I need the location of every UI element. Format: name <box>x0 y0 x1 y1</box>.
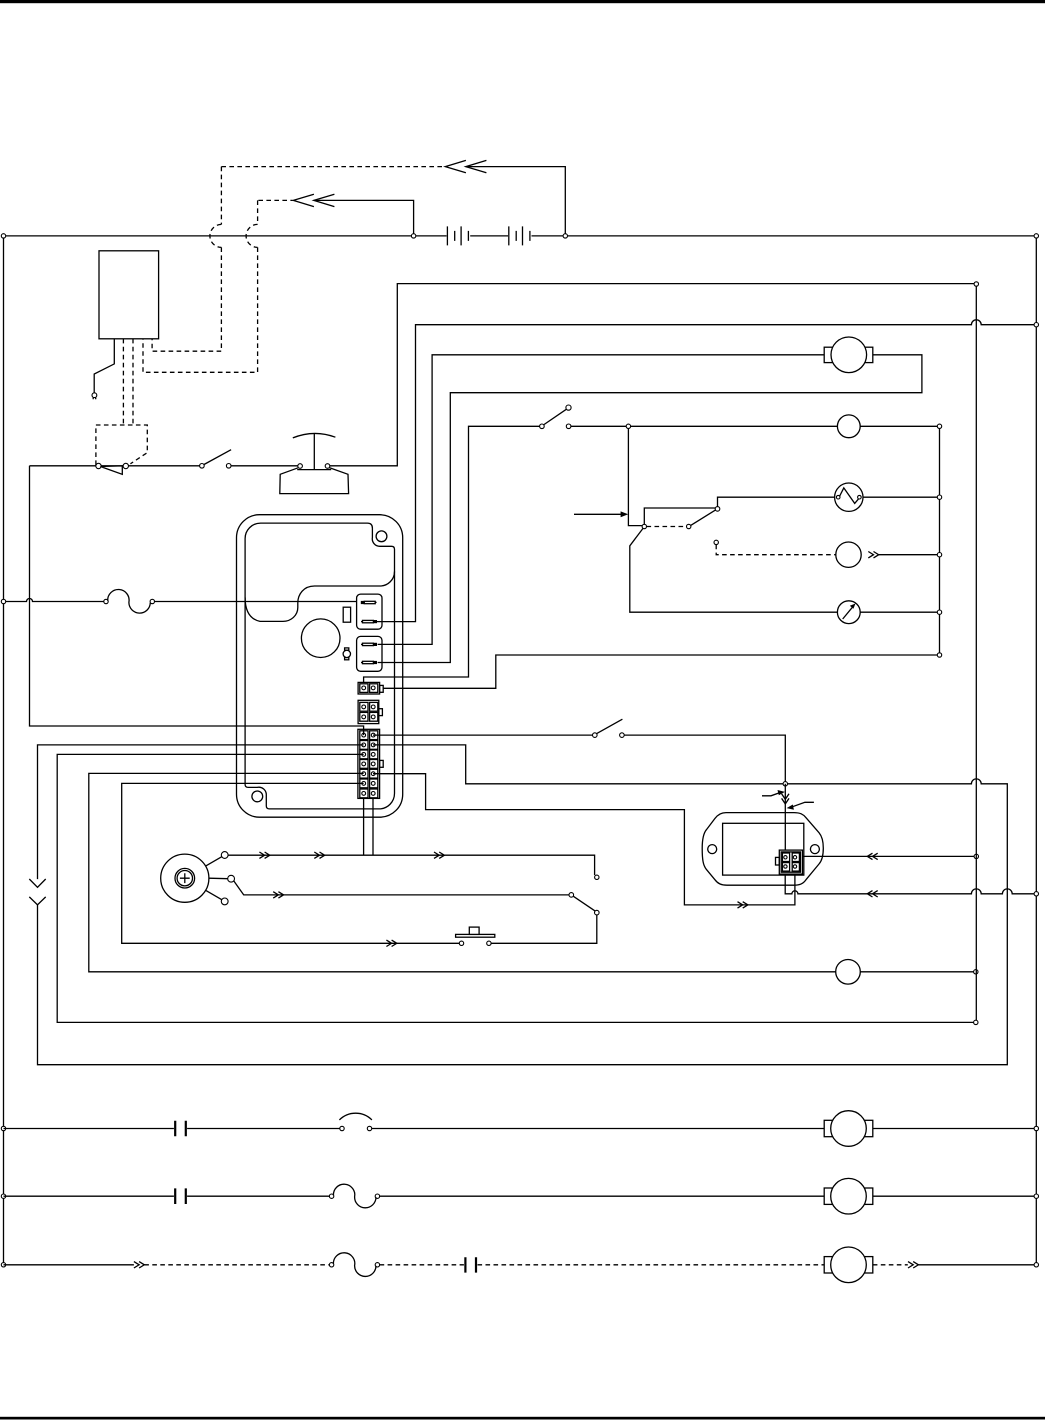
switch blade <box>691 510 716 525</box>
chevrons on B line <box>259 852 269 858</box>
wire: solid part of line 2 <box>314 200 414 233</box>
node reg line2 at border <box>1034 892 1038 896</box>
thermal contact <box>340 1126 344 1130</box>
wire: spark plug lead <box>94 339 114 393</box>
spark plug terminal <box>92 393 97 398</box>
bottom page rule <box>0 1417 1045 1420</box>
chevrons on option line left <box>134 1262 144 1268</box>
node left bus y1196 <box>1 1194 5 1198</box>
key switch terminals <box>221 852 228 859</box>
wire: clutch circuit <box>4 1128 1035 1130</box>
regulator inner rect <box>723 823 804 875</box>
wire: row2 to break arrow <box>38 745 364 879</box>
chevrons on option line right <box>908 1262 918 1268</box>
wire: left bus <box>3 236 5 1265</box>
chevron arrows on line 1 <box>445 160 486 172</box>
wire: row7 pins down to B line <box>364 799 373 856</box>
wire: 2pin to ignition switch line <box>364 426 540 687</box>
mounting hole bottom left <box>252 791 263 802</box>
circuit breaker 2 <box>329 1194 333 1198</box>
starter motor M1 <box>824 347 833 362</box>
fuel solenoid arc <box>293 433 336 437</box>
fuse block 1 <box>357 594 382 629</box>
chevrons after lamp2 <box>868 552 878 558</box>
fuse block 2 <box>357 636 382 671</box>
capacitor C2 <box>175 1188 186 1204</box>
node gauge bus bottom <box>937 653 941 657</box>
wire: top bus segment 2 <box>470 235 508 237</box>
engine plate outer outline <box>237 515 403 818</box>
wire: dashed magneto line 1 <box>221 166 445 168</box>
points fixed contact <box>123 463 128 468</box>
ignition accessory switch <box>540 424 545 429</box>
battery B2 <box>509 226 530 245</box>
wire: gauge bus vertical <box>939 429 941 653</box>
14-pin connector <box>358 729 380 798</box>
wire: gauge bus vertical x976 <box>975 286 977 1020</box>
ignition module box <box>99 251 159 339</box>
wire: lamp2 to bus <box>879 554 938 556</box>
key switch stubs <box>206 857 228 900</box>
open contact <box>687 524 691 528</box>
wire: node diagonal to ammeter <box>630 528 938 612</box>
interlock switch contacts <box>593 733 598 738</box>
wire: gauge bus to 2pin tab <box>383 655 937 688</box>
wire: option solid to corner <box>918 1264 1034 1266</box>
wire: top bus segment 3 <box>532 235 1037 237</box>
plate circle <box>301 619 340 658</box>
wire: node up to charge contact <box>644 508 715 524</box>
wire: dashed drop 1 with hop over bus <box>152 167 221 352</box>
leader arrow 2 <box>791 802 814 807</box>
node right bus y1196 <box>1034 1194 1038 1198</box>
option motor M4 <box>824 1257 833 1273</box>
engine plate inner outline with hole pockets <box>245 523 394 809</box>
node top-left corner <box>1 234 5 238</box>
4-pin connector <box>358 700 379 723</box>
node at ammeter right <box>937 610 941 614</box>
fuel sender gauge <box>835 483 863 511</box>
top page bar <box>0 0 1045 3</box>
kill switch <box>200 464 205 469</box>
dashed alternate position <box>647 526 687 528</box>
chevron arrows on line 2 <box>293 194 334 206</box>
wire: lamp line drop to regulator switch <box>628 429 642 526</box>
wire: option dashed segments <box>144 1264 908 1266</box>
hour meter <box>836 960 861 985</box>
node at sender right <box>937 495 941 499</box>
pointer arrow to regulator wire <box>574 513 622 515</box>
breaker points <box>100 466 122 474</box>
circuit breaker <box>104 599 108 603</box>
wire: starter motor return <box>378 355 922 663</box>
leader arrow 1 <box>762 792 781 796</box>
charge contact <box>715 507 720 512</box>
wire: row5-left to meter line <box>89 773 974 971</box>
node at hourmeter bus <box>974 1020 978 1024</box>
node at line1 end <box>974 282 978 286</box>
small breaker component <box>345 648 349 650</box>
node right bus y1128 <box>1034 1126 1038 1130</box>
fuse element 4 <box>361 662 362 664</box>
mounting hole top right <box>376 531 387 542</box>
fuse element 1 <box>361 601 365 604</box>
dashed cover outline <box>96 425 147 465</box>
regulator connector <box>779 850 802 874</box>
capacitor C1 <box>175 1121 186 1137</box>
solenoid stem <box>313 433 315 469</box>
wire: deck motor circuit <box>4 1195 1035 1197</box>
chevrons on reg line2 <box>867 891 877 897</box>
node on lamp1 line <box>626 424 630 428</box>
break resume chevron <box>29 897 45 905</box>
node on left bus <box>1 599 5 603</box>
wire: breaker feed line <box>4 599 361 602</box>
fuse element 2 <box>361 621 362 623</box>
node at regulator switch <box>642 524 646 528</box>
dashed lamp2 feed stub <box>714 540 718 544</box>
key switch body <box>161 854 209 902</box>
wire: key switch A terminal line <box>234 881 570 895</box>
wire: reg bottom-left pin to right border <box>785 869 1034 894</box>
wire: solid part of line 1 <box>466 167 566 234</box>
wire: row3 to hour meter feed <box>57 754 973 1022</box>
clutch motor M2 <box>824 1120 833 1136</box>
wire: optional motor circuit solid start <box>4 1264 134 1266</box>
deck motor M3 <box>824 1188 833 1204</box>
battery B1 <box>447 226 468 245</box>
wire: contact to sender <box>718 497 938 506</box>
node at meter right <box>974 970 978 974</box>
2-pin connector <box>358 682 380 694</box>
node at battery right <box>563 234 567 238</box>
regulator holes <box>708 845 717 854</box>
node reg line1 at bus <box>974 854 978 858</box>
interlock blade switch <box>569 893 574 898</box>
solenoid body <box>280 467 349 493</box>
interlock switch blade <box>597 719 623 733</box>
wire: top bus segment 1 <box>4 235 447 237</box>
node at lamp2 right <box>937 553 941 557</box>
plug chevrons <box>782 794 789 804</box>
chevrons on reg line3 <box>738 902 748 908</box>
ammeter gauge <box>837 601 860 624</box>
wire: switch to lamp 1 <box>571 425 937 427</box>
node left bus y1128 <box>1 1126 5 1130</box>
chevrons on button line <box>386 940 396 946</box>
wire: dashed magneto line 2 <box>258 199 292 201</box>
node above regulator <box>783 782 787 786</box>
node at battery left <box>411 234 415 238</box>
wire: dashed kill leads to cover <box>123 339 133 425</box>
PTO button <box>459 941 463 945</box>
fuse element 3 <box>361 643 362 645</box>
indicator lamp L2 <box>836 542 861 567</box>
wire: dashed drop 2 with hop over bus <box>143 200 258 372</box>
wire: regulator plug drop <box>784 784 786 857</box>
node left bus y1265 <box>1 1263 5 1267</box>
wire: fuse2a to starter motor <box>378 355 825 645</box>
node right bus top <box>937 424 941 428</box>
wire: reg bottom-right pin to row5 <box>373 774 795 905</box>
wire: kill circuit line <box>30 284 975 466</box>
wire: reg top-right pin to bus <box>796 855 974 857</box>
wire: row1-right to interlock switch and regulator node <box>373 735 785 782</box>
chevrons on reg line1 <box>867 853 877 859</box>
wire: key switch B terminal line <box>228 855 594 875</box>
wire: row2-right to regulator line <box>38 745 1008 1065</box>
node at right bus y324.7 <box>1034 323 1038 327</box>
wire: fuse1 to accessory bus (y324.7) <box>377 320 1034 622</box>
node top-right corner <box>1034 234 1038 238</box>
solenoid terminals <box>298 464 303 469</box>
node at points <box>96 463 101 468</box>
small rectangle component <box>343 607 350 622</box>
engine plate divider contour <box>245 572 394 622</box>
regulator plate <box>702 813 823 886</box>
wire: right bus <box>1035 236 1037 1265</box>
node right bus y1265 <box>1034 1263 1038 1267</box>
break arrowhead down <box>29 879 45 887</box>
circuit breaker 3 <box>329 1263 333 1267</box>
wire: row6 to PTO button line <box>122 783 597 943</box>
wire: points line to pin row1 <box>30 466 364 735</box>
capacitor C3 <box>465 1257 476 1272</box>
indicator lamp L1 <box>837 415 860 438</box>
chevrons on A line <box>273 892 283 898</box>
